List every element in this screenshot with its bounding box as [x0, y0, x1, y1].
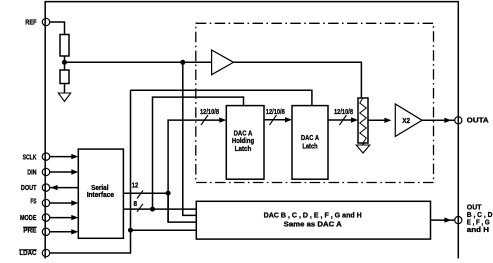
DAC A resistor string [358, 98, 368, 143]
svg-text:DOUT: DOUT [21, 183, 37, 192]
wire LDAC to riser [50, 90, 131, 253]
wire MODE [50, 217, 72, 219]
pin DIN [42, 168, 49, 175]
node bus 12 junction [166, 191, 171, 196]
wire bus 12 riser to holding latch [168, 120, 221, 222]
svg-text:SCLK: SCLK [23, 152, 37, 161]
wire REF branch down to DAC B-H box [183, 62, 197, 215]
pin DOUT [42, 184, 49, 191]
wire DAC B-H to OUT pins [431, 219, 455, 221]
slash DAC string bus [340, 115, 347, 125]
ground (DAC string) [362, 143, 364, 145]
pin OUTA [455, 117, 462, 124]
svg-text:Latch: Latch [302, 142, 317, 151]
node REF branch [180, 60, 185, 65]
svg-text:OUTA: OUTA [467, 116, 489, 125]
wire R2 to ground [64, 84, 66, 94]
wire PRE [50, 231, 72, 233]
wire REF to divider [50, 22, 65, 35]
pin PRE [42, 228, 49, 235]
ground (divider) [58, 93, 70, 102]
svg-text:12/10/8: 12/10/8 [266, 107, 285, 116]
pin REF [42, 18, 49, 25]
wire data bus 12 [123, 192, 168, 194]
wire bus 12 down to DAC B-H box [168, 193, 196, 222]
wire R1 to node [64, 56, 66, 70]
slash bus width 8 [137, 204, 143, 212]
wire latch to DAC string [328, 119, 352, 121]
wire DOUT [50, 187, 79, 189]
pin OUT B-H [455, 217, 462, 224]
op-amp reference buffer [212, 50, 234, 75]
svg-text:DAC B , C , D , E , F , G and: DAC B , C , D , E , F , G and H [264, 211, 362, 220]
wire X2 to OUTA [422, 119, 454, 121]
resistor R1 [60, 35, 69, 57]
dashed internal box (DAC A channel) [196, 23, 434, 182]
svg-text:12/10/8: 12/10/8 [334, 107, 353, 116]
pin LDAC [42, 249, 49, 256]
wire SCLK [50, 156, 72, 158]
svg-text:Latch: Latch [235, 144, 252, 153]
svg-text:MODE: MODE [20, 213, 37, 222]
node LDAC junction [128, 228, 133, 233]
svg-text:12: 12 [132, 181, 139, 190]
svg-text:and H: and H [467, 225, 489, 234]
wire control bus 8 [123, 208, 196, 210]
svg-text:Same as DAC A: Same as DAC A [284, 220, 342, 229]
wire LDAC junction to DAC B-H box [131, 229, 197, 231]
svg-text:12/10/8: 12/10/8 [200, 107, 219, 116]
svg-text:8: 8 [134, 199, 138, 208]
slash latch bus [270, 115, 277, 125]
DAC B-H block [196, 201, 430, 239]
wire tap to buffer input [65, 61, 212, 63]
wire bus 8 riser to holding latch top [153, 97, 244, 209]
node bus 8 junction [150, 207, 155, 212]
pin SCLK [42, 153, 49, 160]
node divider tap [62, 60, 67, 65]
svg-text:Interface: Interface [87, 190, 114, 199]
DAC A holding latch [226, 106, 264, 180]
svg-text:REF: REF [25, 18, 37, 27]
svg-text:X2: X2 [402, 116, 410, 125]
resistor R2 [60, 70, 69, 84]
pin MODE [42, 214, 49, 221]
wire holding latch to latch [264, 119, 286, 121]
svg-text:DIN: DIN [27, 168, 36, 177]
DAC A latch [292, 106, 328, 180]
wire buffer output to DAC string [234, 62, 362, 98]
wire DIN [50, 171, 72, 173]
serial interface U2 [78, 149, 123, 238]
wire DAC string to X2 amp [368, 119, 385, 121]
pin FS [42, 199, 49, 206]
wire LDAC control to DAC A latch [131, 90, 312, 105]
op-amp X2 output buffer [395, 104, 422, 136]
slash bus width 12 [137, 191, 143, 199]
slash holding latch bus [201, 115, 208, 125]
svg-text:FS: FS [30, 197, 36, 206]
wire FS [50, 202, 72, 204]
